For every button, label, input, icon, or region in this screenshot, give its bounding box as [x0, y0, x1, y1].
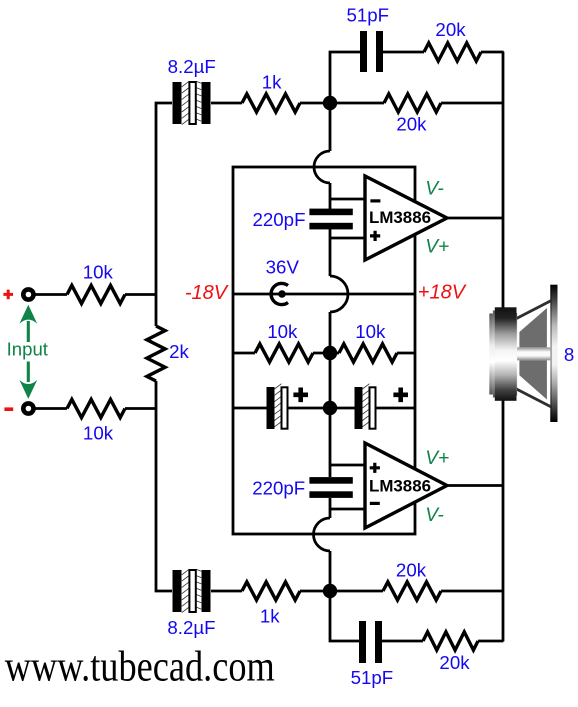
svg-text:LM3886: LM3886	[369, 208, 431, 227]
svg-text:20k: 20k	[396, 113, 427, 134]
svg-text:20k: 20k	[435, 19, 466, 40]
svg-text:www.tubecad.com: www.tubecad.com	[5, 644, 275, 691]
svg-text:20k: 20k	[439, 652, 470, 673]
svg-text:1k: 1k	[262, 72, 282, 93]
svg-text:V+: V+	[425, 448, 449, 469]
svg-text:Input: Input	[7, 338, 49, 359]
svg-text:-18V: -18V	[185, 282, 229, 304]
svg-text:+18V: +18V	[418, 282, 467, 304]
svg-text:LM3886: LM3886	[369, 476, 431, 495]
svg-text:36V: 36V	[266, 257, 300, 278]
svg-text:8.2µF: 8.2µF	[167, 617, 215, 638]
svg-text:10k: 10k	[83, 262, 114, 283]
svg-text:10k: 10k	[355, 321, 386, 342]
svg-text:10k: 10k	[267, 321, 298, 342]
svg-text:8.2µF: 8.2µF	[168, 56, 216, 77]
svg-text:2k: 2k	[169, 341, 189, 362]
svg-text:V-: V-	[425, 505, 444, 526]
svg-text:10k: 10k	[83, 423, 114, 444]
svg-text:20k: 20k	[396, 560, 427, 581]
svg-text:V+: V+	[425, 236, 449, 257]
svg-text:51pF: 51pF	[346, 5, 389, 26]
svg-text:8: 8	[564, 344, 574, 365]
svg-text:1k: 1k	[260, 605, 280, 626]
svg-text:51pF: 51pF	[351, 667, 394, 688]
svg-text:220pF: 220pF	[253, 209, 306, 230]
svg-text:220pF: 220pF	[252, 478, 305, 499]
svg-text:V-: V-	[425, 179, 444, 200]
